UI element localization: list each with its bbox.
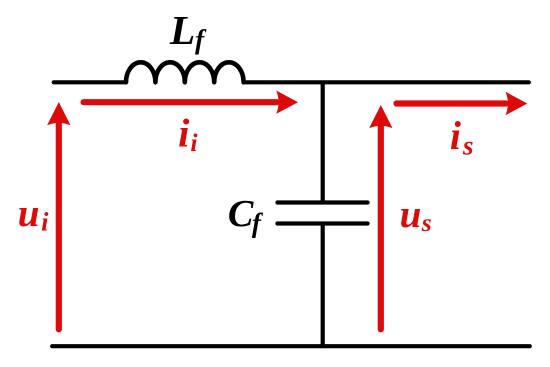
svg-text:s: s: [421, 208, 432, 237]
svg-text:L: L: [169, 7, 195, 53]
wire bottom rail: [52, 344, 530, 348]
arrow u_i shaft: [56, 124, 62, 329]
capacitor C f top plate: [277, 200, 367, 204]
arrow i_i head: [276, 91, 298, 114]
arrow u_s head: [369, 105, 392, 128]
arrow i_i shaft: [84, 99, 277, 105]
arrow u_s shaft: [378, 127, 384, 329]
svg-text:C: C: [228, 193, 254, 235]
inductor Lf coil: [126, 62, 244, 82]
wire top-right segment: [244, 80, 529, 84]
svg-text:u: u: [400, 193, 422, 236]
svg-text:f: f: [195, 24, 207, 55]
wire vertical upper (node to capacitor): [321, 82, 325, 202]
arrow i_s head: [506, 92, 528, 115]
arrow i_s shaft: [397, 100, 507, 106]
svg-text:i: i: [178, 111, 190, 156]
svg-text:u: u: [18, 192, 40, 235]
wire vertical lower (capacitor to bottom rail): [321, 224, 325, 347]
svg-text:i: i: [450, 114, 461, 158]
svg-text:f: f: [252, 208, 264, 238]
wire top-left segment: [54, 80, 126, 84]
svg-text:i: i: [190, 128, 198, 157]
svg-text:i: i: [41, 207, 49, 237]
svg-text:s: s: [462, 130, 474, 160]
capacitor C f bottom plate: [277, 221, 367, 225]
arrow u_i head: [47, 102, 70, 125]
